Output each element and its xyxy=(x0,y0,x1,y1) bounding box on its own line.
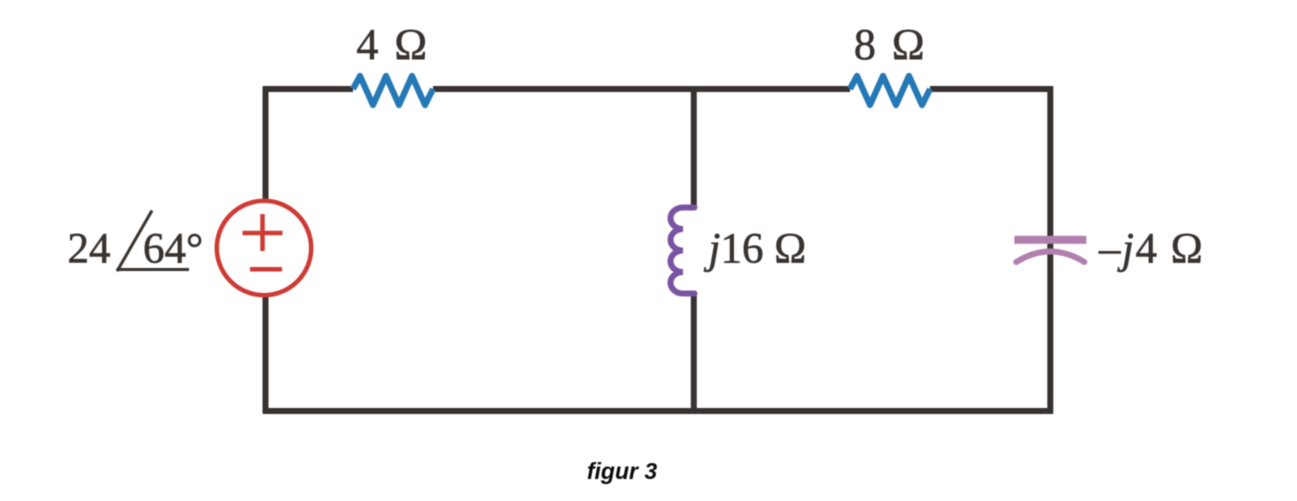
svg-text:–j4 Ω: –j4 Ω xyxy=(1098,226,1204,273)
svg-text:8 Ω: 8 Ω xyxy=(854,20,927,69)
svg-text:4 Ω: 4 Ω xyxy=(356,20,429,69)
svg-text:24: 24 xyxy=(68,226,111,273)
svg-text:figur 3: figur 3 xyxy=(587,458,657,484)
svg-text:j16 Ω: j16 Ω xyxy=(704,226,807,273)
svg-text:64°: 64° xyxy=(143,226,203,273)
